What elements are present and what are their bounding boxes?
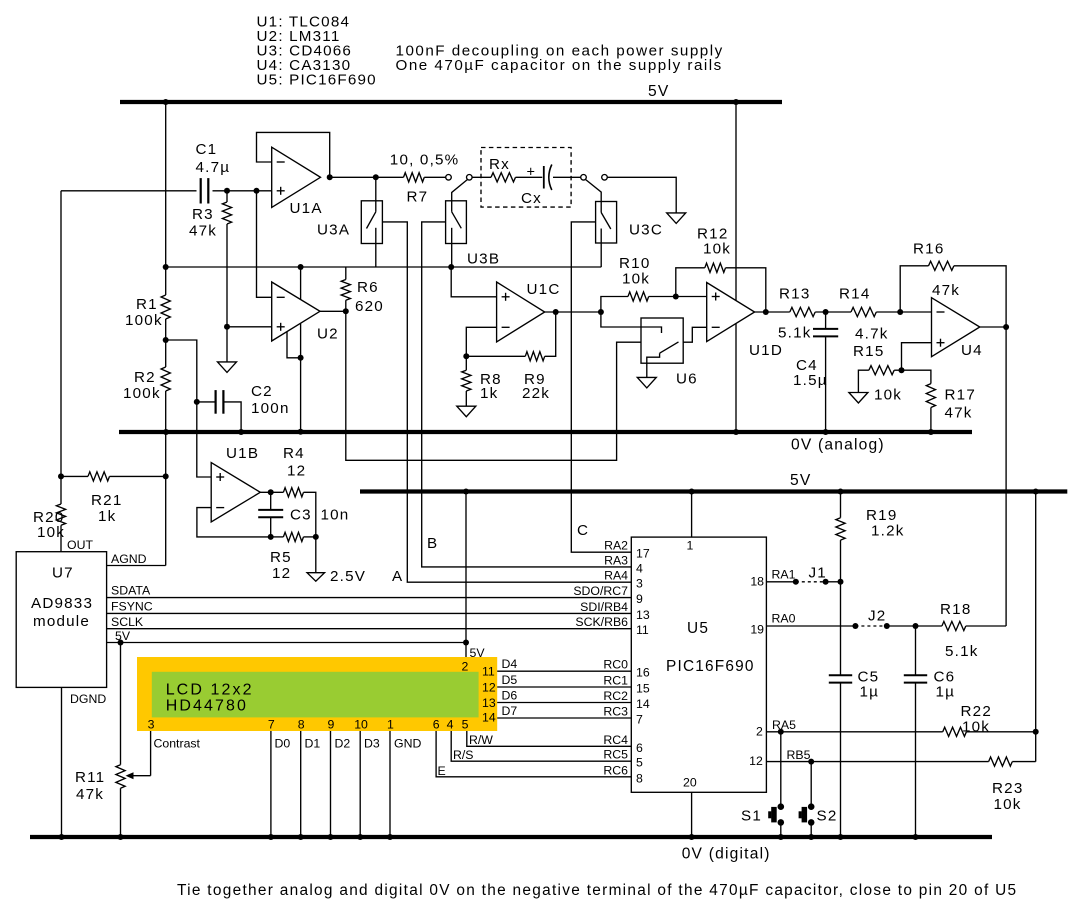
- wire RA1: [766, 581, 795, 583]
- resistor R7: [404, 173, 425, 182]
- resistor R12: [676, 268, 705, 297]
- wire C2 node to U1B+: [197, 402, 211, 477]
- capacitor C2: [197, 401, 216, 403]
- svg-text:Cx: Cx: [521, 190, 542, 207]
- resistor R15: [894, 369, 901, 371]
- U3A control wire A: [382, 222, 631, 582]
- wire reference node: [166, 266, 602, 268]
- svg-text:5: 5: [636, 756, 643, 770]
- R11 wiper arrow: [130, 775, 151, 777]
- resistor R17: [902, 370, 931, 383]
- svg-text:1k: 1k: [480, 385, 498, 402]
- svg-text:R23: R23: [992, 780, 1023, 797]
- U1A feedback loop: [257, 132, 330, 177]
- U2 top pin to node: [300, 267, 302, 300]
- push button S2: [810, 762, 812, 807]
- svg-text:RC1: RC1: [603, 674, 628, 688]
- wire R20 to U7 OUT: [60, 525, 62, 551]
- svg-text:7: 7: [636, 713, 643, 727]
- svg-text:S2: S2: [817, 808, 838, 825]
- svg-text:DGND: DGND: [70, 692, 106, 706]
- wire R19 to C5: [840, 582, 842, 675]
- svg-text:Rx: Rx: [489, 156, 510, 173]
- svg-text:5.1k: 5.1k: [778, 325, 812, 342]
- svg-text:U1D: U1D: [749, 342, 783, 359]
- svg-text:D4: D4: [502, 657, 518, 671]
- svg-text:13: 13: [636, 608, 650, 622]
- ground: [667, 213, 686, 224]
- svg-text:GND: GND: [394, 737, 421, 751]
- U1C + input wire: [451, 267, 496, 297]
- U1C - input wire: [466, 327, 496, 356]
- resistor R2: [161, 367, 170, 391]
- op-amp U1A: [272, 147, 321, 207]
- LCD bottom pin wires: [270, 731, 272, 837]
- wire to C2: [166, 340, 197, 402]
- resistor R16: [900, 266, 928, 312]
- potentiometer R11: [120, 643, 122, 765]
- svg-text:D6: D6: [502, 689, 518, 703]
- U3C output wire: [600, 243, 602, 267]
- pin 1 wire: [691, 492, 693, 538]
- svg-text:10k: 10k: [622, 271, 650, 288]
- 0V analog rail: [119, 430, 972, 434]
- resistor R5: [283, 532, 303, 541]
- lever to U3C: [586, 180, 602, 202]
- svg-text:RC0: RC0: [603, 658, 628, 672]
- U1D output: [755, 311, 790, 313]
- op-amp U4: [932, 298, 980, 357]
- capacitor C1: [200, 178, 202, 203]
- svg-text:14: 14: [636, 697, 650, 711]
- U1D 5V supply stub: [735, 102, 737, 300]
- resistor R23: [989, 757, 1013, 766]
- svg-text:8: 8: [298, 718, 305, 732]
- svg-text:J2: J2: [868, 608, 886, 625]
- svg-text:10, 0,5%: 10, 0,5%: [390, 152, 460, 169]
- svg-text:0V (analog): 0V (analog): [791, 437, 885, 454]
- svg-text:D1: D1: [305, 737, 321, 751]
- resistor R13: [790, 307, 815, 316]
- svg-text:1.5µ: 1.5µ: [793, 372, 828, 389]
- svg-text:SCLK: SCLK: [111, 615, 144, 629]
- svg-text:16: 16: [636, 666, 650, 680]
- resistor R10: [601, 297, 628, 313]
- resistor R9: [466, 355, 525, 357]
- capacitor Cx polarized: [516, 176, 543, 178]
- svg-text:22k: 22k: [522, 385, 550, 402]
- svg-text:14: 14: [482, 711, 496, 725]
- svg-text:RA0: RA0: [772, 612, 796, 626]
- svg-text:R22: R22: [961, 703, 992, 720]
- svg-text:10n: 10n: [321, 507, 350, 524]
- LCD control wires: [436, 731, 631, 777]
- wire SCLK: [107, 628, 632, 630]
- svg-text:RA2: RA2: [604, 539, 628, 553]
- svg-text:1µ: 1µ: [936, 684, 956, 701]
- svg-text:13: 13: [482, 696, 496, 710]
- svg-text:RC6: RC6: [603, 763, 628, 777]
- analog switch U3B: [446, 201, 467, 244]
- svg-text:SCK/RB6: SCK/RB6: [575, 615, 628, 629]
- push button S1: [780, 732, 782, 807]
- ground: [849, 393, 868, 404]
- svg-text:module: module: [33, 613, 90, 630]
- svg-text:R3: R3: [192, 206, 214, 223]
- svg-text:R1: R1: [136, 296, 158, 313]
- analog switch U3C: [596, 202, 617, 244]
- U4 + input: [902, 343, 932, 371]
- svg-text:12: 12: [749, 754, 763, 768]
- resistor R20: [56, 504, 65, 525]
- wire to ground after switch: [607, 177, 676, 213]
- wiper to LCD pin3: [150, 731, 152, 776]
- U3B output wire: [451, 244, 453, 268]
- svg-text:R4: R4: [283, 445, 305, 462]
- svg-text:47k: 47k: [76, 786, 104, 803]
- wire R1-R2 node: [165, 319, 167, 367]
- svg-text:R17: R17: [945, 387, 976, 404]
- LCD data wires D4-D7: [497, 670, 631, 672]
- capacitor C3: [270, 492, 272, 509]
- resistor R19: [840, 492, 842, 518]
- svg-text:A: A: [392, 568, 403, 585]
- resistor R6: [345, 267, 347, 280]
- svg-text:U3B: U3B: [467, 251, 500, 268]
- svg-text:LCD 12x2: LCD 12x2: [166, 682, 254, 699]
- svg-text:12: 12: [482, 681, 496, 695]
- svg-text:R/S: R/S: [453, 748, 474, 762]
- svg-text:+: +: [527, 165, 535, 181]
- svg-text:One 470µF capacitor on the sup: One 470µF capacitor on the supply rails: [396, 57, 723, 74]
- U3C control wire C: [571, 222, 631, 552]
- op-amp U1C: [497, 282, 545, 342]
- IC U7 AD9833 module box: [16, 552, 106, 688]
- svg-text:RC4: RC4: [603, 733, 628, 747]
- svg-text:19: 19: [750, 623, 764, 637]
- svg-text:R19: R19: [866, 507, 897, 524]
- svg-text:5: 5: [462, 718, 469, 732]
- svg-text:J1: J1: [809, 565, 827, 582]
- wire C1 to U1A+: [213, 190, 272, 192]
- svg-text:4: 4: [447, 718, 454, 732]
- pull-up wire to 5V: [1035, 492, 1037, 762]
- svg-text:U1A: U1A: [290, 200, 323, 217]
- wire to Rx: [472, 176, 491, 178]
- svg-text:R7: R7: [407, 189, 429, 206]
- svg-text:R15: R15: [853, 343, 884, 360]
- resistor R1: [161, 295, 170, 319]
- wire U2+ input: [227, 326, 272, 328]
- LCD module body: [137, 657, 497, 731]
- svg-text:5V: 5V: [790, 472, 811, 489]
- wire U1A output: [330, 176, 404, 178]
- capacitor C6: [915, 626, 917, 675]
- svg-text:D3: D3: [364, 737, 380, 751]
- op-amp U1B: [211, 463, 260, 522]
- svg-text:11: 11: [636, 623, 649, 637]
- svg-text:Contrast: Contrast: [154, 737, 201, 751]
- svg-text:5.1k: 5.1k: [945, 643, 979, 660]
- svg-text:R10: R10: [619, 255, 650, 272]
- svg-text:RC3: RC3: [603, 705, 628, 719]
- svg-text:D0: D0: [275, 737, 291, 751]
- switch lever to U3B: [452, 180, 468, 201]
- svg-text:R14: R14: [839, 286, 870, 303]
- switch U6: [601, 312, 662, 333]
- svg-text:D5: D5: [502, 673, 518, 687]
- svg-text:1: 1: [387, 718, 394, 732]
- wire Cx out: [553, 176, 581, 178]
- svg-text:R6: R6: [357, 279, 379, 296]
- wire R2 to AGND net: [165, 391, 167, 566]
- svg-text:U6: U6: [676, 371, 698, 388]
- svg-text:C3: C3: [290, 507, 312, 524]
- svg-text:U5: PIC16F690: U5: PIC16F690: [257, 72, 377, 89]
- capacitor C4: [825, 312, 827, 328]
- wire AGND to U7: [107, 565, 166, 567]
- svg-text:4.7µ: 4.7µ: [196, 159, 231, 176]
- wire 5V rail to R1 node: [165, 102, 167, 295]
- U3A output wire: [375, 244, 377, 268]
- resistor R3: [226, 191, 228, 202]
- resistor R22: [943, 727, 967, 736]
- svg-text:18: 18: [750, 575, 764, 589]
- svg-text:5V: 5V: [648, 83, 669, 100]
- U1B - feedback wire: [197, 508, 271, 537]
- resistor R4: [283, 488, 303, 497]
- svg-text:1.2k: 1.2k: [871, 523, 905, 540]
- svg-text:R18: R18: [940, 601, 971, 618]
- svg-text:6: 6: [636, 741, 643, 755]
- U2 bottom pins: [287, 332, 301, 358]
- svg-text:100n: 100n: [251, 400, 290, 417]
- svg-text:11: 11: [482, 665, 495, 679]
- switch contacts R7: [446, 175, 452, 181]
- svg-text:10k: 10k: [874, 387, 902, 404]
- svg-text:R5: R5: [270, 549, 292, 566]
- svg-text:D7: D7: [502, 704, 518, 718]
- svg-text:10k: 10k: [962, 719, 990, 736]
- svg-text:10k: 10k: [994, 796, 1022, 813]
- svg-text:SDATA: SDATA: [111, 584, 151, 598]
- svg-text:U3C: U3C: [629, 222, 663, 239]
- wire U2- input column: [257, 191, 272, 297]
- U4 output to R18: [1005, 327, 1007, 626]
- jumper J2: [855, 625, 886, 627]
- svg-text:47k: 47k: [189, 223, 217, 240]
- svg-text:RC5: RC5: [603, 748, 628, 762]
- svg-text:7: 7: [268, 718, 275, 732]
- wire left input column: [60, 191, 62, 504]
- svg-text:S1: S1: [741, 808, 762, 825]
- svg-text:RB5: RB5: [787, 748, 811, 762]
- U2 output wire: [320, 310, 346, 312]
- svg-text:Tie together analog and digita: Tie together analog and digital 0V on th…: [177, 882, 1017, 899]
- jumper J1: [796, 581, 826, 583]
- svg-text:RA5: RA5: [772, 718, 796, 732]
- svg-text:15: 15: [636, 682, 650, 696]
- svg-text:RA1: RA1: [772, 568, 796, 582]
- svg-text:U1C: U1C: [527, 281, 561, 298]
- svg-text:10: 10: [354, 718, 368, 732]
- wire RB5: [766, 761, 988, 763]
- svg-text:9: 9: [636, 592, 643, 606]
- svg-text:U1B: U1B: [226, 445, 259, 462]
- svg-text:1: 1: [687, 539, 694, 553]
- U2 output to U6 control: [346, 311, 641, 460]
- 2.5V reference symbol: [315, 537, 317, 573]
- svg-text:47k: 47k: [932, 282, 960, 299]
- svg-text:20: 20: [683, 776, 697, 790]
- svg-text:AD9833: AD9833: [31, 595, 93, 612]
- 5V analog rail: [120, 100, 782, 104]
- svg-text:RA3: RA3: [604, 553, 628, 567]
- svg-text:RA4: RA4: [604, 569, 628, 583]
- op-amp U1D: [707, 283, 755, 342]
- svg-text:C1: C1: [196, 141, 218, 158]
- svg-text:R16: R16: [913, 241, 944, 258]
- wire C1 input: [61, 190, 197, 192]
- svg-text:E: E: [438, 764, 446, 778]
- IC U5 PIC16F690 box: [631, 537, 766, 792]
- wire RA5: [766, 731, 942, 733]
- svg-text:4.7k: 4.7k: [855, 326, 889, 343]
- svg-text:8: 8: [636, 771, 643, 785]
- svg-text:U7: U7: [52, 565, 74, 582]
- U3B control wire B: [422, 222, 632, 567]
- svg-text:U5: U5: [687, 620, 709, 637]
- svg-text:R13: R13: [779, 286, 810, 303]
- svg-text:9: 9: [328, 718, 335, 732]
- svg-text:1µ: 1µ: [860, 684, 880, 701]
- svg-text:6: 6: [433, 718, 440, 732]
- wire R3 to ground / U2+: [226, 224, 228, 362]
- ground: [637, 377, 656, 388]
- capacitor C5: [829, 674, 852, 676]
- svg-text:100k: 100k: [125, 312, 163, 329]
- resistor R21: [61, 475, 88, 477]
- resistor R14: [851, 307, 876, 316]
- svg-text:SDO/RC7: SDO/RC7: [573, 584, 628, 598]
- analog switch U3A: [361, 201, 382, 244]
- svg-text:2: 2: [756, 725, 763, 739]
- svg-text:4: 4: [636, 561, 643, 575]
- svg-text:2.5V: 2.5V: [330, 568, 366, 585]
- svg-text:R2: R2: [134, 369, 156, 386]
- svg-text:17: 17: [636, 547, 650, 561]
- svg-text:0V (digital): 0V (digital): [682, 846, 771, 863]
- svg-text:FSYNC: FSYNC: [111, 600, 153, 614]
- U1B output: [260, 491, 283, 493]
- 0V digital rail: [30, 835, 992, 839]
- comparator U2: [272, 282, 320, 341]
- svg-text:PIC16F690: PIC16F690: [666, 658, 755, 675]
- svg-text:U4: U4: [961, 342, 983, 359]
- wire FSYNC: [107, 612, 632, 614]
- resistor R18: [916, 625, 942, 627]
- svg-text:10k: 10k: [703, 241, 731, 258]
- resistor Rx: [491, 173, 516, 182]
- U3A input wire: [375, 177, 377, 201]
- svg-text:OUT: OUT: [67, 538, 93, 552]
- switch contacts Cx: [581, 175, 587, 181]
- 5V digital rail: [360, 489, 1067, 493]
- svg-text:B: B: [427, 535, 438, 552]
- svg-text:C: C: [577, 522, 589, 539]
- ground: [218, 362, 237, 373]
- DUT dashed box: [481, 148, 571, 208]
- U1C output wire: [545, 311, 601, 313]
- wire SDATA: [107, 597, 632, 599]
- svg-text:HD44780: HD44780: [166, 698, 248, 715]
- resistor R8: [465, 356, 467, 370]
- pin 20 wire: [691, 792, 693, 837]
- wire C2 to 0V rail: [224, 402, 242, 432]
- svg-text:12: 12: [287, 463, 306, 480]
- svg-text:R11: R11: [75, 769, 105, 786]
- svg-text:SDI/RB4: SDI/RB4: [580, 600, 628, 614]
- svg-text:3: 3: [148, 718, 155, 732]
- U4 output: [980, 326, 1006, 328]
- wire DGND: [61, 687, 63, 837]
- svg-text:D2: D2: [335, 737, 351, 751]
- svg-text:R/W: R/W: [469, 733, 493, 747]
- wire 5V rail to LCD pin2: [465, 492, 467, 658]
- svg-text:R21: R21: [91, 492, 122, 509]
- svg-text:3: 3: [636, 577, 643, 591]
- ground: [457, 406, 476, 417]
- svg-text:2: 2: [462, 660, 469, 674]
- svg-text:RC2: RC2: [603, 689, 628, 703]
- svg-text:47k: 47k: [945, 405, 973, 422]
- svg-text:620: 620: [355, 298, 384, 315]
- svg-text:U2: U2: [317, 326, 339, 343]
- wire RA0: [766, 625, 855, 627]
- svg-text:100k: 100k: [123, 385, 161, 402]
- svg-text:1k: 1k: [98, 508, 116, 525]
- svg-text:U3A: U3A: [317, 222, 350, 239]
- svg-text:AGND: AGND: [111, 552, 147, 566]
- LCD screen: [152, 672, 479, 718]
- U1D 0V supply stub: [735, 324, 737, 432]
- wire 5V from U7: [107, 642, 466, 644]
- svg-text:12: 12: [272, 565, 291, 582]
- svg-text:C2: C2: [251, 383, 273, 400]
